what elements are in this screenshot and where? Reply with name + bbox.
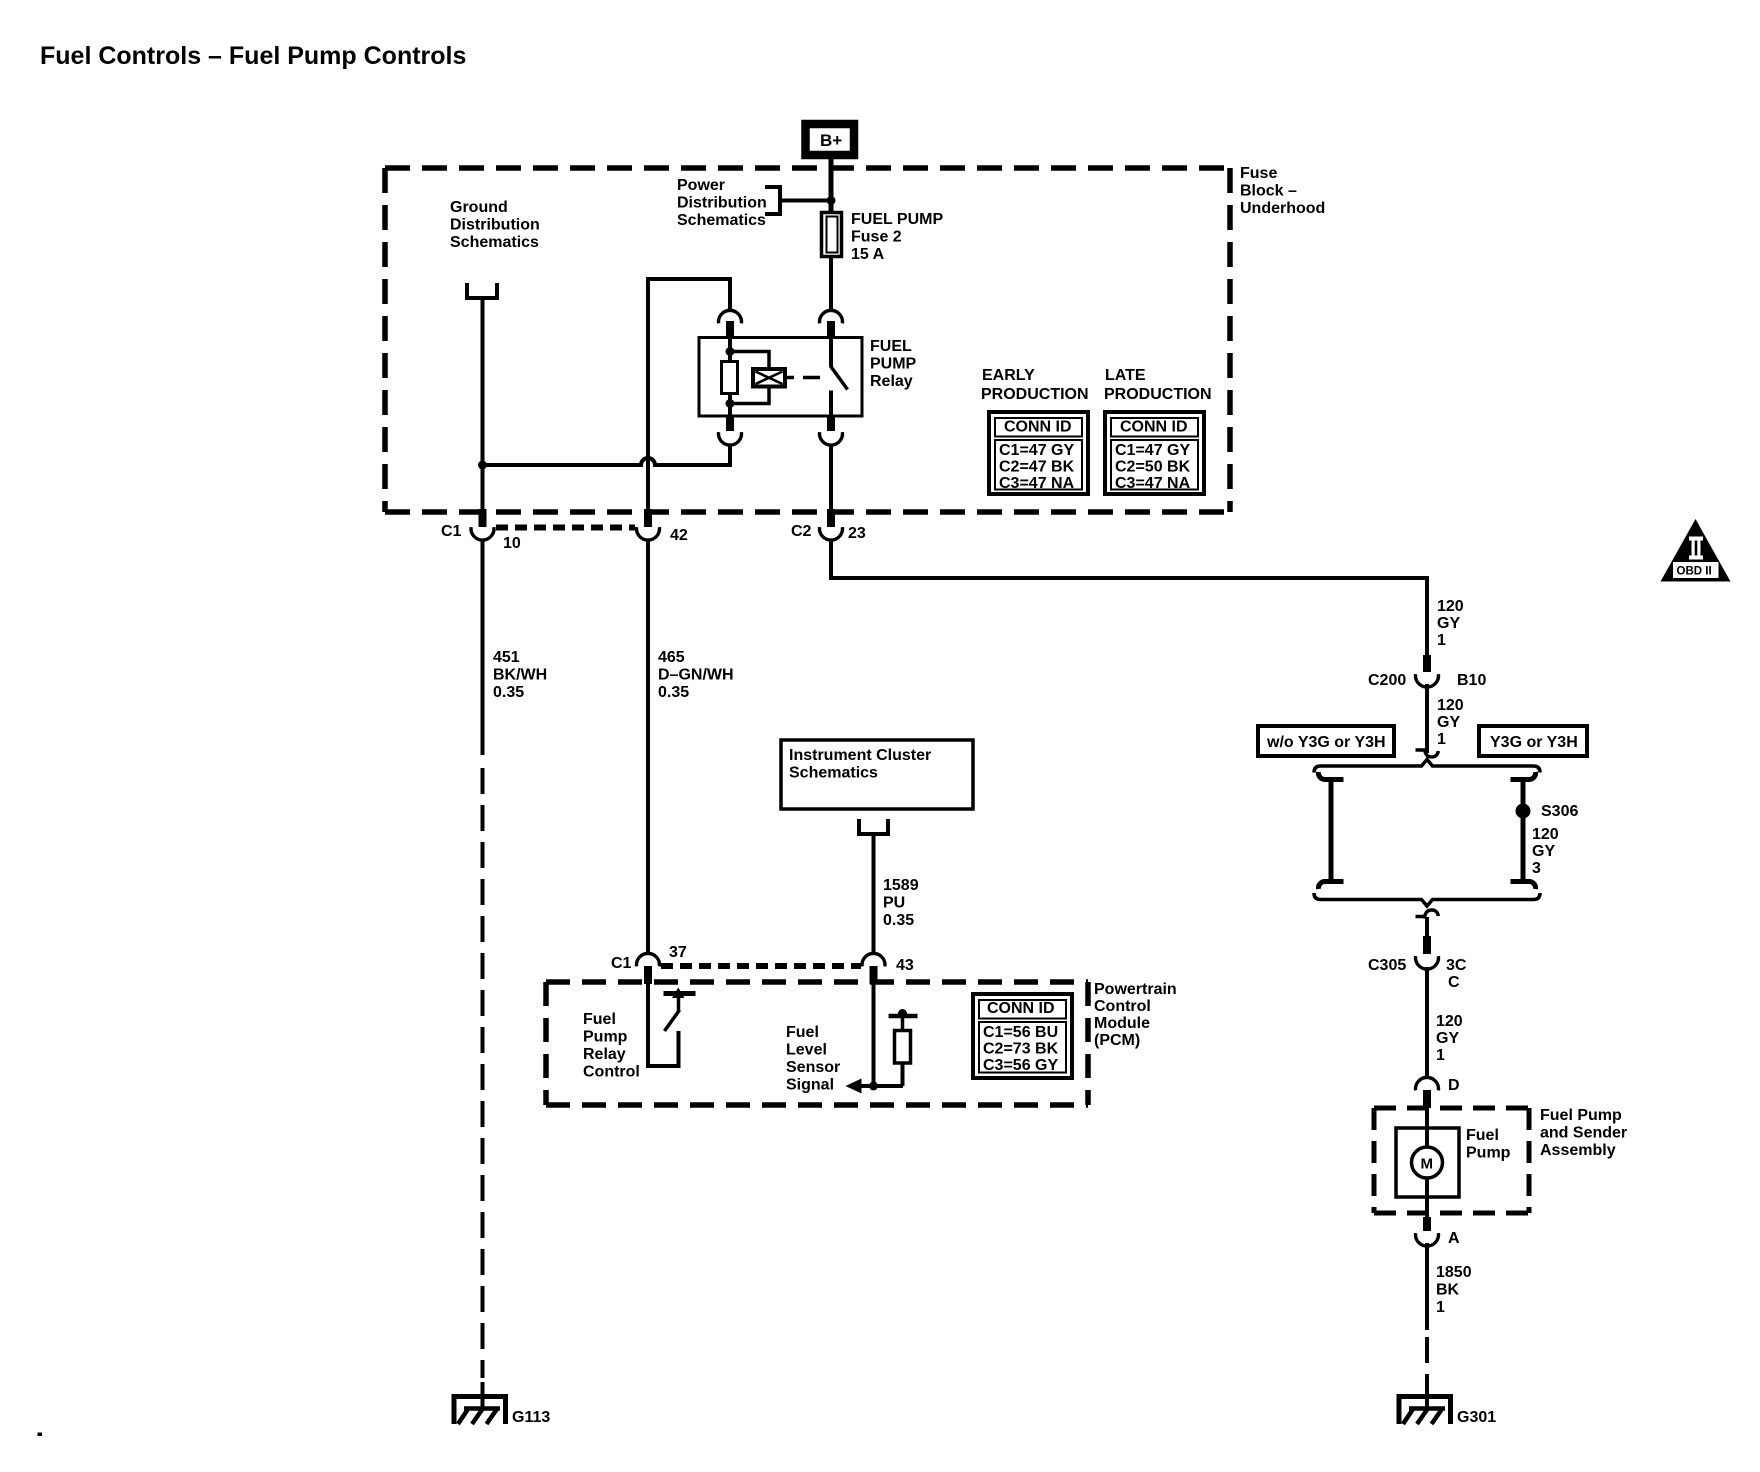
junction node sensor signal — [869, 1082, 878, 1091]
wire 451 label — [493, 649, 547, 701]
relay coil parallel loop wire — [730, 352, 769, 404]
ground G301 — [1399, 1397, 1496, 1427]
svg-text:C3=47 NA: C3=47 NA — [1115, 475, 1191, 492]
relay switch wire and blade — [831, 339, 848, 416]
wire 465 label — [658, 649, 734, 701]
svg-text:120: 120 — [1532, 826, 1559, 843]
fuel pump relay control label — [583, 1011, 640, 1081]
wire 1589 PU — [872, 834, 876, 953]
B+ feed wire — [829, 159, 834, 211]
LATE PRODUCTION label — [1104, 367, 1212, 403]
svg-text:GY: GY — [1437, 615, 1460, 632]
wire ground distribution down to C1 — [481, 298, 485, 510]
wire power distribution to B+ feed — [780, 199, 831, 203]
svg-text:GY: GY — [1532, 843, 1555, 860]
svg-text:C1: C1 — [611, 955, 632, 972]
instrument cluster schematics box — [781, 740, 973, 809]
svg-text:Relay: Relay — [870, 373, 913, 390]
junction node coil top — [726, 347, 735, 356]
option merge connector dome — [1416, 915, 1427, 919]
svg-text:C1=47 GY: C1=47 GY — [1115, 442, 1190, 459]
wire 1850 label — [1436, 1264, 1472, 1316]
option branch left bar top — [1318, 772, 1343, 780]
svg-text:Assembly: Assembly — [1540, 1142, 1616, 1159]
svg-text:C2=47 BK: C2=47 BK — [999, 459, 1075, 476]
svg-text:10: 10 — [503, 535, 521, 552]
wire relay switch to C2 — [829, 444, 833, 510]
connector C1 pin 10 — [441, 509, 521, 552]
option merge bottom brace — [1314, 893, 1540, 906]
fuel pump motor M — [1412, 1147, 1443, 1178]
svg-text:120: 120 — [1437, 697, 1464, 714]
svg-text:CONN ID: CONN ID — [1004, 419, 1072, 436]
ground distribution bracket — [467, 283, 497, 298]
svg-text:Underhood: Underhood — [1240, 200, 1325, 217]
svg-text:Relay: Relay — [583, 1046, 626, 1063]
wire option merge to C305 — [1425, 917, 1429, 938]
svg-text:Powertrain: Powertrain — [1094, 981, 1177, 998]
connector C1 pin 37 — [611, 944, 687, 984]
svg-text:D: D — [1448, 1077, 1460, 1094]
junction node at B+ feed — [827, 196, 836, 205]
svg-text:1: 1 — [1437, 731, 1446, 748]
svg-text:120: 120 — [1436, 1013, 1463, 1030]
junction node on ground wire — [478, 461, 487, 470]
fuse F2 FUEL PUMP 15A — [822, 213, 842, 257]
svg-text:EARLY: EARLY — [982, 367, 1035, 384]
svg-text:C2=50 BK: C2=50 BK — [1115, 459, 1191, 476]
ground G113 — [454, 1397, 550, 1427]
wire 451 dashed part — [481, 768, 485, 1378]
svg-text:Level: Level — [786, 1042, 827, 1059]
svg-text:43: 43 — [896, 957, 914, 974]
option branch left wire — [1329, 780, 1334, 882]
relay coil X-box — [753, 369, 785, 387]
svg-text:Y3G or Y3H: Y3G or Y3H — [1490, 734, 1578, 751]
svg-text:C2=73 BK: C2=73 BK — [983, 1041, 1059, 1058]
svg-text:15 A: 15 A — [851, 246, 885, 263]
svg-text:FUEL: FUEL — [870, 338, 912, 355]
option box Y3G or Y3H — [1479, 726, 1587, 756]
svg-text:1589: 1589 — [883, 877, 919, 894]
svg-text:C2: C2 — [791, 523, 812, 540]
svg-text:C: C — [1448, 974, 1460, 991]
svg-text:GY: GY — [1436, 1030, 1459, 1047]
svg-text:D–GN/WH: D–GN/WH — [658, 667, 734, 684]
svg-text:0.35: 0.35 — [658, 684, 689, 701]
option box w/o Y3G or Y3H — [1258, 726, 1394, 756]
relay actuator dashed link — [787, 376, 827, 380]
svg-text:LATE: LATE — [1105, 367, 1146, 384]
svg-text:CONN ID: CONN ID — [987, 1000, 1055, 1017]
svg-text:GY: GY — [1437, 714, 1460, 731]
wire 451 BK/WH solid part — [481, 540, 485, 755]
svg-text:w/o Y3G or Y3H: w/o Y3G or Y3H — [1266, 734, 1386, 751]
svg-text:Fuel: Fuel — [583, 1011, 616, 1028]
wire into G113 — [481, 1382, 485, 1408]
svg-text:1: 1 — [1437, 632, 1446, 649]
junction node coil bottom — [726, 399, 735, 408]
svg-text:FUEL PUMP: FUEL PUMP — [851, 211, 943, 228]
svg-text:465: 465 — [658, 649, 685, 666]
svg-text:Fuse: Fuse — [1240, 165, 1277, 182]
option branch right bar top — [1511, 772, 1536, 780]
dashed connector line 37 to 43 — [661, 963, 861, 969]
PCM pull-up resistor — [889, 1009, 918, 1086]
svg-text:PU: PU — [883, 895, 905, 912]
power distribution schematics label — [677, 177, 767, 229]
wire 120 GY 1 label lower — [1436, 1013, 1463, 1064]
svg-text:451: 451 — [493, 649, 520, 666]
svg-text:PRODUCTION: PRODUCTION — [1104, 386, 1212, 403]
PCM CONN ID table — [973, 994, 1072, 1078]
connector pin 42 — [637, 509, 688, 544]
svg-text:Distribution: Distribution — [677, 195, 767, 212]
svg-text:Fuel Controls – Fuel Pump Cont: Fuel Controls – Fuel Pump Controls — [40, 42, 466, 70]
svg-text:Schematics: Schematics — [677, 212, 766, 229]
wire 1850 BK solid — [1425, 1243, 1429, 1330]
svg-text:Block –: Block – — [1240, 183, 1297, 200]
wire C2 to C200 — [831, 540, 1427, 655]
svg-text:C305: C305 — [1368, 957, 1406, 974]
fuel pump relay control driver — [648, 984, 696, 1066]
svg-text:C1: C1 — [441, 523, 462, 540]
svg-text:BK: BK — [1436, 1282, 1460, 1299]
svg-text:C3=56 GY: C3=56 GY — [983, 1057, 1058, 1074]
relay coil pin top connector — [719, 310, 742, 339]
wire pin42 up and over to relay coil pin — [648, 279, 730, 510]
wire 120 GY 1 label mid — [1437, 697, 1464, 748]
relay suppression resistor — [722, 362, 738, 394]
svg-text:S306: S306 — [1541, 803, 1578, 820]
option split connector cup — [1416, 748, 1427, 752]
svg-text:B10: B10 — [1457, 672, 1486, 689]
svg-text:Fuse 2: Fuse 2 — [851, 229, 902, 246]
svg-text:1: 1 — [1436, 1299, 1445, 1316]
wire fuse to relay switch pin — [829, 256, 833, 311]
wire C200 to option split — [1425, 684, 1429, 753]
fuse block label — [1240, 165, 1325, 217]
option branch right wire — [1521, 780, 1526, 882]
svg-text:Power: Power — [677, 177, 725, 194]
svg-text:1850: 1850 — [1436, 1264, 1472, 1281]
fuel level sensor signal wire — [872, 984, 876, 1086]
relay switch pin bottom connector — [820, 416, 843, 445]
connector C2 pin 23 — [791, 509, 866, 542]
svg-text:and Sender: and Sender — [1540, 1125, 1627, 1142]
svg-text:(PCM): (PCM) — [1094, 1032, 1140, 1049]
svg-text:Schematics: Schematics — [450, 234, 539, 251]
EARLY PRODUCTION label — [981, 367, 1089, 403]
svg-text:M: M — [1421, 1156, 1434, 1173]
wire into G301 — [1425, 1379, 1429, 1408]
svg-text:G301: G301 — [1457, 1409, 1496, 1426]
relay label — [870, 338, 917, 390]
wire 1589 label — [883, 877, 919, 929]
svg-text:C200: C200 — [1368, 672, 1406, 689]
svg-text:Control: Control — [583, 1064, 640, 1081]
wire through pump — [1425, 1108, 1429, 1148]
svg-text:42: 42 — [670, 527, 688, 544]
svg-text:Fuel: Fuel — [1466, 1127, 1499, 1144]
svg-text:Pump: Pump — [583, 1029, 628, 1046]
svg-text:Fuel Pump: Fuel Pump — [1540, 1107, 1622, 1124]
ground distribution schematics label — [450, 199, 540, 251]
svg-text:Instrument Cluster: Instrument Cluster — [789, 747, 931, 764]
option branch left bar bottom — [1318, 882, 1343, 890]
svg-text:23: 23 — [848, 525, 866, 542]
svg-text:Signal: Signal — [786, 1077, 834, 1094]
wire 120 GY 1 label upper — [1437, 598, 1464, 649]
svg-text:PUMP: PUMP — [870, 356, 917, 373]
fuel level sensor signal label — [786, 1024, 840, 1094]
svg-text:Fuel: Fuel — [786, 1024, 819, 1041]
fuel pump assembly label — [1540, 1107, 1627, 1159]
OBD II symbol — [1661, 519, 1731, 582]
PCM dashed box — [546, 982, 1088, 1105]
svg-text:CONN ID: CONN ID — [1120, 419, 1188, 436]
connector C305 pin 3C C — [1368, 936, 1467, 991]
svg-text:C1=47 GY: C1=47 GY — [999, 442, 1074, 459]
svg-text:Ground: Ground — [450, 199, 508, 216]
fuel pump label — [1466, 1127, 1511, 1162]
svg-text:120: 120 — [1437, 598, 1464, 615]
early production CONN ID table — [989, 412, 1088, 494]
svg-text:G113: G113 — [512, 1409, 550, 1426]
fuse block underhood dashed box — [385, 168, 1230, 512]
svg-text:0.35: 0.35 — [493, 684, 524, 701]
wire 465 D-GN/WH — [646, 540, 650, 953]
wire C305 to D — [1425, 967, 1429, 1078]
stray period mark bottom left — [38, 1433, 43, 1437]
B+ box — [806, 124, 855, 155]
svg-text:PRODUCTION: PRODUCTION — [981, 386, 1089, 403]
svg-text:37: 37 — [669, 944, 687, 961]
relay coil pin bottom connector — [719, 416, 742, 445]
option branch right bar bottom — [1511, 882, 1536, 890]
svg-text:C1=56 BU: C1=56 BU — [983, 1024, 1058, 1041]
wire 120 GY 3 label — [1532, 826, 1559, 877]
relay switch pin top connector — [820, 310, 843, 339]
svg-text:OBD II: OBD II — [1677, 566, 1712, 578]
svg-text:Sensor: Sensor — [786, 1059, 840, 1076]
svg-text:1: 1 — [1436, 1047, 1445, 1064]
fuse F2 label — [851, 211, 943, 263]
option split top brace — [1314, 760, 1540, 773]
svg-text:0.35: 0.35 — [883, 912, 914, 929]
PCM label — [1094, 981, 1177, 1049]
connector C200 pin B10 — [1368, 655, 1486, 689]
relay box FUEL PUMP Relay — [699, 338, 862, 417]
fuel pump and sender assembly dashed box — [1374, 1108, 1529, 1213]
wire 1850 dashed — [1425, 1337, 1429, 1379]
fuel pump inner box — [1396, 1128, 1459, 1197]
dashed connector line C1 to 42 — [496, 525, 635, 531]
splice S306 — [1516, 803, 1579, 820]
svg-text:Module: Module — [1094, 1015, 1150, 1032]
connector pin A — [1416, 1217, 1461, 1247]
instrument cluster bracket — [859, 819, 888, 834]
svg-text:Schematics: Schematics — [789, 765, 878, 782]
svg-text:Distribution: Distribution — [450, 217, 540, 234]
svg-text:Pump: Pump — [1466, 1145, 1511, 1162]
connector pin D — [1416, 1077, 1460, 1108]
late production CONN ID table — [1105, 412, 1204, 494]
svg-text:3: 3 — [1532, 860, 1541, 877]
connector pin 43 — [862, 953, 914, 984]
svg-text:3C: 3C — [1446, 957, 1467, 974]
sensor signal arrow — [846, 1079, 904, 1094]
svg-text:BK/WH: BK/WH — [493, 667, 547, 684]
wire relay coil return to ground wire with hop — [483, 444, 731, 465]
svg-text:C3=47 NA: C3=47 NA — [999, 475, 1075, 492]
svg-text:B+: B+ — [820, 131, 842, 150]
svg-text:Control: Control — [1094, 998, 1151, 1015]
svg-text:A: A — [1448, 1230, 1460, 1247]
power distribution bracket — [765, 187, 780, 214]
relay coil pin wire inside — [728, 339, 732, 362]
